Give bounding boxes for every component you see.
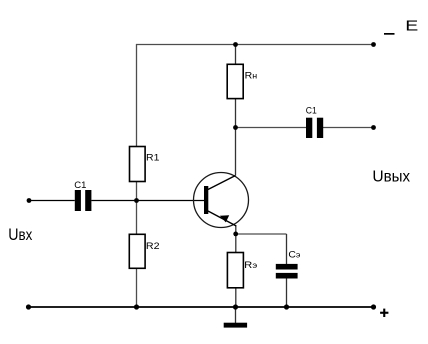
svg-text:R2: R2 bbox=[146, 241, 160, 252]
svg-text:C1: C1 bbox=[306, 106, 317, 117]
svg-text:E: E bbox=[405, 17, 418, 34]
svg-text:Rэ: Rэ bbox=[244, 260, 257, 271]
svg-text:Rн: Rн bbox=[245, 70, 258, 81]
svg-text:Uвх: Uвх bbox=[8, 226, 32, 244]
svg-text:Cэ: Cэ bbox=[288, 250, 300, 261]
svg-text:Uвых: Uвых bbox=[372, 168, 410, 185]
svg-text:C1: C1 bbox=[74, 180, 86, 191]
svg-text:R1: R1 bbox=[146, 152, 159, 163]
